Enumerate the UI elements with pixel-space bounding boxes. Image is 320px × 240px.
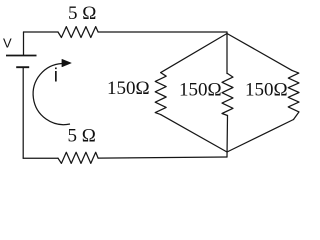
battery V negative plate (short) [16,66,29,68]
svg-text:150Ω: 150Ω [107,78,150,99]
wire: battery top plate to top-left corner [23,32,25,55]
resistor R4 150 ohm (right, vertical zigzag) [288,70,299,119]
svg-text:5 Ω: 5 Ω [68,125,96,146]
wire: diagonal top node to R2 top [161,34,227,73]
svg-text:i: i [54,66,58,87]
wire: diagonal R2 bottom to bottom node [161,115,227,152]
battery V positive plate (long) [6,55,37,57]
wire: bottom rail right segment [98,157,227,158]
wire: top node vertical drop to R3 [226,32,228,74]
current arrow arc [33,64,70,125]
wire: top rail left segment [24,31,59,33]
svg-text:150Ω: 150Ω [179,80,222,101]
resistor R1 5 ohm (top, horizontal zigzag) [58,27,98,38]
wire: diagonal top node to R4 top [227,34,292,71]
wire: diagonal R4 bottom to bottom node [227,120,294,153]
wire: bottom rail left segment [23,157,58,159]
wire: top rail right segment to top node [98,31,227,33]
svg-text:5 Ω: 5 Ω [68,3,96,24]
resistor R5 5 ohm (bottom, horizontal zigzag) [58,152,98,163]
wire: left vertical from bottom rail to battery bottom plate [22,68,24,159]
wire: R3 bottom vertical to bottom rail [226,116,229,158]
resistor R3 150 ohm (middle, vertical zigzag) [222,74,233,116]
svg-text:V: V [3,35,12,50]
svg-text:150Ω: 150Ω [245,80,288,101]
current arrowhead [62,59,71,67]
resistor R2 150 ohm (left, vertical zigzag) [155,73,166,115]
